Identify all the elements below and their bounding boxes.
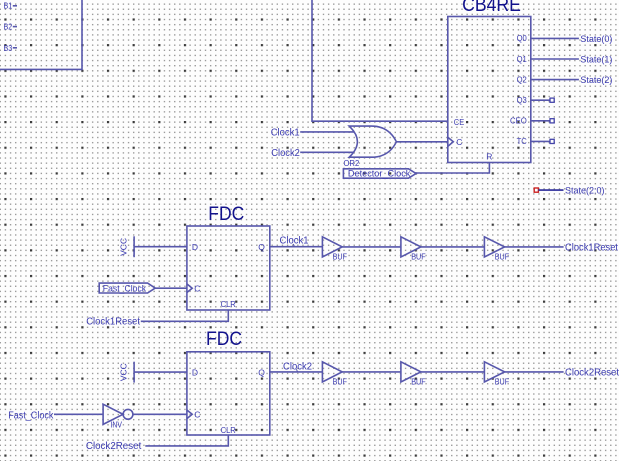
inverter U8 bubble	[123, 409, 133, 419]
svg-text:CLR: CLR	[221, 299, 236, 309]
svg-text:Q2: Q2	[517, 74, 527, 84]
svg-text:State(1): State(1)	[580, 55, 612, 65]
wire Q (U3) to buffer chain	[270, 246, 323, 248]
wire OR2 output to C pin of U1	[396, 141, 447, 143]
svg-text:Clock2Reset: Clock2Reset	[86, 441, 142, 452]
open terminal square TC	[550, 139, 554, 143]
wire Q (U7) to buffer chain	[270, 371, 323, 373]
svg-text:OR2: OR2	[344, 158, 360, 168]
flip-flop U7 FDC body	[187, 352, 270, 435]
svg-text:Detector_Clock: Detector_Clock	[348, 169, 411, 180]
net label tick Clock1	[293, 244, 294, 247]
buffer U4 BUF triangle	[322, 237, 342, 257]
label BUF (U11)	[495, 377, 509, 387]
wire stub Q3	[531, 99, 550, 101]
svg-text:VCC: VCC	[119, 363, 129, 381]
svg-text:INV: INV	[111, 420, 123, 430]
net label Clock1 on Q wire	[280, 236, 309, 247]
clock chevron C of U1	[448, 137, 454, 146]
wire CLR (U3) return	[141, 310, 229, 321]
svg-text:Fast_Clock: Fast_Clock	[103, 283, 147, 294]
pin label TC	[517, 136, 527, 146]
svg-text:CLR: CLR	[221, 425, 236, 435]
wire stub TC	[531, 140, 550, 142]
net label Clock2Reset (right)	[565, 367, 619, 378]
svg-text:FDC: FDC	[206, 328, 242, 350]
svg-text:Q: Q	[258, 368, 265, 378]
svg-text:CE: CE	[454, 117, 465, 127]
pin stub B3	[13, 47, 17, 49]
net label State(0)	[580, 34, 612, 44]
wire Fast_Clock to INV input	[54, 413, 103, 415]
wire INV output to C (U7)	[133, 413, 187, 415]
partial symbol box top-left	[0, 0, 82, 69]
svg-text:D: D	[192, 368, 198, 378]
net flag Fast_Clock (U3)	[99, 283, 155, 293]
pin label Q2	[517, 74, 527, 84]
wire U4 to U5	[342, 246, 401, 248]
svg-text:CB4RE: CB4RE	[462, 0, 521, 16]
wire CE from top	[312, 0, 448, 121]
label BUF (U9)	[333, 377, 347, 387]
buffer U9 BUF triangle	[322, 362, 342, 382]
pin label D (U7)	[192, 368, 198, 378]
pin label Q (U3)	[258, 242, 265, 252]
net label Clock1Reset (right)	[565, 242, 618, 253]
flip-flop U3 FDC body	[187, 226, 270, 310]
wire Q1 to State(1)	[531, 58, 579, 60]
pin label C	[456, 137, 462, 147]
pin label C (U7)	[194, 410, 200, 420]
wire U5 to U6	[421, 246, 485, 248]
wire U6 to Clock1Reset label	[505, 246, 564, 248]
svg-text:State(2:0): State(2:0)	[565, 186, 605, 196]
pin label D (U3)	[192, 242, 198, 252]
net label Clock2 on Q wire	[283, 361, 312, 372]
vcc symbol V1 bar	[133, 236, 135, 257]
pin label CE	[454, 117, 465, 127]
net label Clock2Reset (CLR U7)	[86, 441, 142, 452]
svg-text:Q: Q	[258, 242, 265, 252]
wire U11 to Clock2Reset label	[505, 371, 564, 373]
wire U9 to U10	[342, 371, 401, 373]
svg-text:TC: TC	[517, 136, 527, 146]
net label Fast_Clock (U7)	[8, 410, 54, 421]
clock chevron C of U7	[187, 410, 192, 419]
pin label B1	[4, 1, 13, 11]
label BUF (U5)	[411, 252, 425, 262]
svg-text:B1: B1	[4, 1, 13, 11]
label BUF (U6)	[495, 252, 509, 262]
inverter U8 INV triangle	[103, 404, 123, 424]
label BUF (U10)	[411, 377, 425, 387]
svg-text:Clock2Reset: Clock2Reset	[565, 367, 619, 378]
buffer U6 BUF triangle	[484, 237, 504, 257]
wire R pin to Detector_Clock flag	[415, 163, 489, 174]
svg-text:State(2): State(2)	[580, 75, 612, 85]
wire Fast_Clock flag to C (U3)	[155, 287, 187, 289]
wire U10 to U11	[421, 371, 485, 373]
svg-text:BUF: BUF	[495, 377, 509, 387]
net flag text Fast_Clock (U3)	[103, 283, 147, 294]
net flag text Detector_Clock	[348, 169, 411, 180]
svg-text:BUF: BUF	[411, 377, 425, 387]
bus wire to State(2:0) label	[538, 189, 563, 191]
svg-text:Clock1: Clock1	[271, 127, 300, 138]
wire stub CEO	[531, 120, 550, 122]
svg-text:B3: B3	[4, 43, 13, 53]
svg-text:BUF: BUF	[411, 252, 425, 262]
pin label C (U3)	[194, 284, 200, 294]
bus label State(2:0)	[565, 186, 605, 196]
svg-text:Q0: Q0	[517, 33, 527, 43]
label FDC (U3)	[208, 203, 244, 225]
net label Clock1Reset (CLR U3)	[86, 316, 140, 327]
wire CLR (U7) return	[145, 435, 228, 446]
counter U1 CB4RE body	[448, 17, 531, 163]
label BUF (U4)	[333, 252, 347, 262]
wire Clock1 to OR2 input	[300, 131, 354, 133]
buffer U10 BUF triangle	[401, 362, 421, 382]
open terminal square Q3	[550, 98, 554, 102]
label OR2	[344, 158, 360, 168]
net label State(2)	[580, 75, 612, 85]
pin label B3	[4, 43, 13, 53]
wire Clock2 to OR2 input	[300, 151, 354, 153]
net label Clock2 (OR input)	[271, 148, 300, 159]
svg-text:Fast_Clock: Fast_Clock	[8, 410, 54, 421]
pin label CLR (U7)	[221, 425, 236, 435]
svg-text:R: R	[486, 152, 492, 162]
or-gate U2 OR2	[349, 126, 396, 157]
label FDC (U7)	[206, 328, 242, 350]
pin label CEO	[510, 116, 527, 126]
wire VCC to D (U3)	[134, 246, 187, 248]
svg-text:BUF: BUF	[495, 252, 509, 262]
net flag Detector_Clock	[343, 169, 416, 178]
svg-text:CEO: CEO	[510, 116, 527, 126]
svg-text:C: C	[194, 284, 200, 294]
pin label Q3	[517, 95, 527, 105]
pin label Q (U7)	[258, 368, 265, 378]
svg-text:B2: B2	[4, 21, 13, 31]
vcc symbol V1 text	[119, 238, 129, 256]
svg-text:Q1: Q1	[517, 54, 527, 64]
wire VCC to D (U7)	[134, 371, 187, 373]
pin stub B2	[13, 26, 17, 28]
label INV (U8)	[111, 420, 123, 430]
svg-text:C: C	[456, 137, 462, 147]
svg-text:D: D	[192, 242, 198, 252]
pin label R	[486, 152, 492, 162]
svg-text:Clock1Reset: Clock1Reset	[565, 242, 618, 253]
net label Clock1 (OR input)	[271, 127, 300, 138]
clock chevron C of U3	[187, 284, 192, 293]
vcc symbol V2 bar	[133, 362, 135, 383]
pin label Q1	[517, 54, 527, 64]
vcc symbol V2 text	[119, 363, 129, 381]
svg-text:FDC: FDC	[208, 203, 244, 225]
svg-text:BUF: BUF	[333, 377, 347, 387]
svg-text:Clock2: Clock2	[271, 148, 300, 159]
wire Q0 to State(0)	[531, 37, 579, 39]
buffer U11 BUF triangle	[484, 362, 504, 382]
svg-text:C: C	[194, 410, 200, 420]
open terminal square CEO	[550, 119, 554, 123]
svg-text:Clock1Reset: Clock1Reset	[86, 316, 140, 327]
net label tick Clock2	[296, 369, 297, 372]
pin label B2	[4, 21, 13, 31]
svg-text:VCC: VCC	[119, 238, 129, 256]
buffer U5 BUF triangle	[401, 237, 421, 257]
pin stub B1	[13, 5, 17, 7]
pin label CLR (U3)	[221, 299, 236, 309]
wire Q2 to State(2)	[531, 79, 579, 81]
label CB4RE	[462, 0, 521, 16]
svg-text:State(0): State(0)	[580, 34, 612, 44]
svg-text:Q3: Q3	[517, 95, 527, 105]
svg-text:BUF: BUF	[333, 252, 347, 262]
svg-text:Clock2: Clock2	[283, 361, 312, 372]
pin label Q0	[517, 33, 527, 43]
net label State(1)	[580, 55, 612, 65]
bus tap square State(2:0)	[534, 188, 538, 192]
